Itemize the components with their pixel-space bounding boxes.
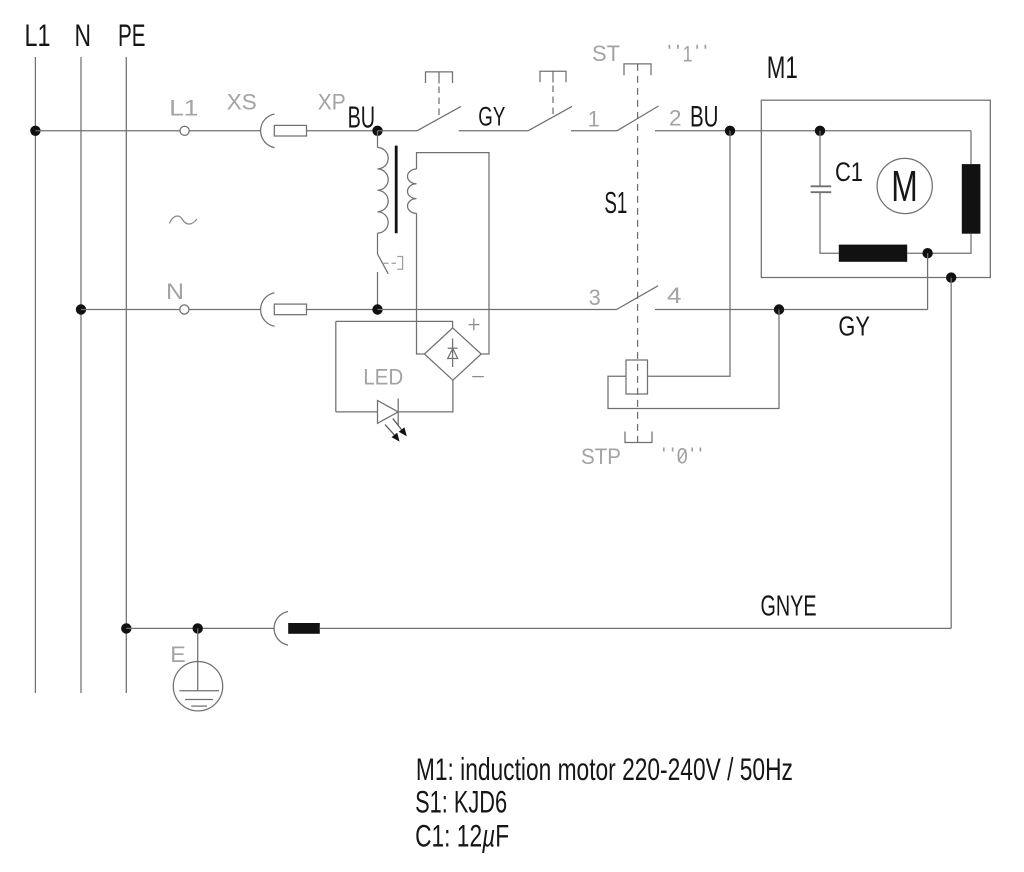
bridge diode stem [452,339,454,368]
svg-text:BU: BU [690,101,719,134]
LED box top edge [336,321,453,328]
wire secondary top to rectifier right [417,153,490,354]
bridge rectifier diamond [424,328,481,380]
node aux junction dot [922,248,932,258]
terminal circle N [180,305,189,314]
svg-text:STP: STP [581,444,621,469]
capacitor C1 top lead [819,131,821,187]
switch blade 2 [528,106,572,130]
thermal actuator dashed link [384,262,397,264]
svg-text:PE: PE [118,17,146,53]
wire LED to rectifier minus [398,380,453,412]
node N junction dot [76,304,86,314]
label position 0 [664,448,701,452]
node earth tap dot [193,623,203,633]
svg-text:M1: M1 [767,49,798,85]
LED box left edge [335,321,337,412]
wire L1 row to terminal [35,130,179,132]
svg-text:LED: LED [363,365,403,390]
svg-text:M: M [891,163,918,211]
svg-text:S1: S1 [604,186,627,220]
svg-text:GNYE: GNYE [761,590,817,622]
wire coil to node 2 [648,131,731,376]
wire aux winding to node [907,252,927,254]
LED arrow 1 [393,419,402,430]
transformer core bar [395,146,398,234]
switch blade 1 [417,106,461,130]
wire aux node down to GY [927,253,929,309]
node GY junction dot [774,304,784,314]
node C1 junction dot [815,126,825,136]
S1 coil box [626,360,648,394]
label position 1 [669,45,705,49]
svg-text:C1: C1 [835,157,863,187]
wire primary bottom [377,233,379,254]
push-button actuator 2 stem [552,71,554,82]
ST actuator bracket [624,64,651,75]
wire plug to node T [307,309,378,311]
capacitor C1 plates [811,185,832,187]
plug pin PE filled [288,623,320,634]
LED cathode bar [397,399,399,426]
transformer primary lead [377,131,379,148]
wire GNYE [319,627,951,629]
svg-text:N: N [166,279,184,304]
svg-text:M1: induction motor 220-240V /: M1: induction motor 220-240V / 50Hz [416,751,793,787]
wire terminal to socket XS [189,130,260,132]
push-button actuator 1 stem [438,72,440,84]
earth circle [173,662,222,711]
svg-text:XS: XS [227,90,257,115]
plug pin rectangle N row [274,304,306,315]
wire top to main winding [970,131,972,164]
svg-text:2: 2 [669,106,682,131]
motor circle [877,158,932,213]
wire secondary bottom to rectifier left [417,213,425,354]
svg-text:N: N [75,17,92,53]
S1 contact 3-4 blade [617,286,659,310]
svg-text:4: 4 [667,283,682,308]
wire N terminal to socket [189,309,260,311]
LED box bottom edge [336,411,378,413]
svg-text:E: E [170,642,186,667]
motor M1 outer box [761,100,990,277]
node BU junction dot [372,126,382,136]
bus N vertical wire [80,57,82,693]
socket XS arc [261,114,275,148]
aux winding black bar [839,245,907,262]
svg-text:XP: XP [318,90,346,115]
socket arc PE row [274,612,288,646]
plug XP pin rectangle [274,125,306,136]
svg-text:C1: 12µF: C1: 12µF [415,818,509,854]
terminal circle L1 [180,126,189,135]
svg-text:L1: L1 [169,96,198,121]
svg-text:GY: GY [838,311,870,342]
node L1 junction dot [30,126,40,136]
svg-text:BU: BU [348,100,376,134]
wire switch2 to contact 1 [571,130,617,132]
S1 contact 1-2 blade [617,106,659,131]
transformer primary coil [378,148,389,234]
push-button actuator 2 bracket [540,71,566,82]
thermal switch blade [378,254,389,274]
svg-text:S1: KJD6: S1: KJD6 [415,784,507,820]
socket arc N row [261,293,275,327]
wire contact 4 GY [655,309,928,311]
wire between switches [459,130,528,132]
wire GY node down [608,310,779,409]
wire main winding to aux node [928,234,971,254]
bus PE vertical wire [125,57,127,693]
wire PE row [126,627,274,629]
svg-text:3: 3 [589,285,601,310]
thermal switch lower lead [377,272,379,310]
wire plug to node BU [307,130,378,132]
AC sine symbol [170,216,197,224]
plus sign [469,319,480,331]
main winding black bar [962,164,981,234]
svg-text:ST: ST [592,41,620,66]
minus sign [472,376,484,378]
wire frame earth down [950,278,952,629]
svg-text:1: 1 [683,41,693,66]
wire node BU to switch [378,130,418,132]
STP actuator bracket [625,432,652,443]
bridge diode cathode bar [448,347,458,349]
node frame earth dot [946,272,956,282]
earth stem [197,628,199,690]
node 2 junction dot [725,126,735,136]
bridge diode triangle [448,349,458,359]
LED arrow 2 [385,425,394,435]
wire N row to contact 3 [378,309,617,311]
svg-text:1: 1 [588,106,600,131]
svg-text:L1: L1 [25,17,51,53]
bus L1 vertical wire [34,57,36,693]
S1 actuator dashed stem [637,64,639,443]
wire contact 2 to motor [655,130,971,132]
node PE junction dot [121,623,131,633]
node T junction dot [372,304,382,314]
LED D1 triangle [378,401,399,424]
thermal actuator bracket [397,257,402,270]
wire N row to terminal [81,309,180,311]
push-button actuator 1 bracket [426,72,453,83]
transformer secondary coil [407,169,416,213]
svg-text:GY: GY [478,101,505,131]
earth bars [179,690,219,692]
capacitor C1 bottom lead [820,192,839,253]
